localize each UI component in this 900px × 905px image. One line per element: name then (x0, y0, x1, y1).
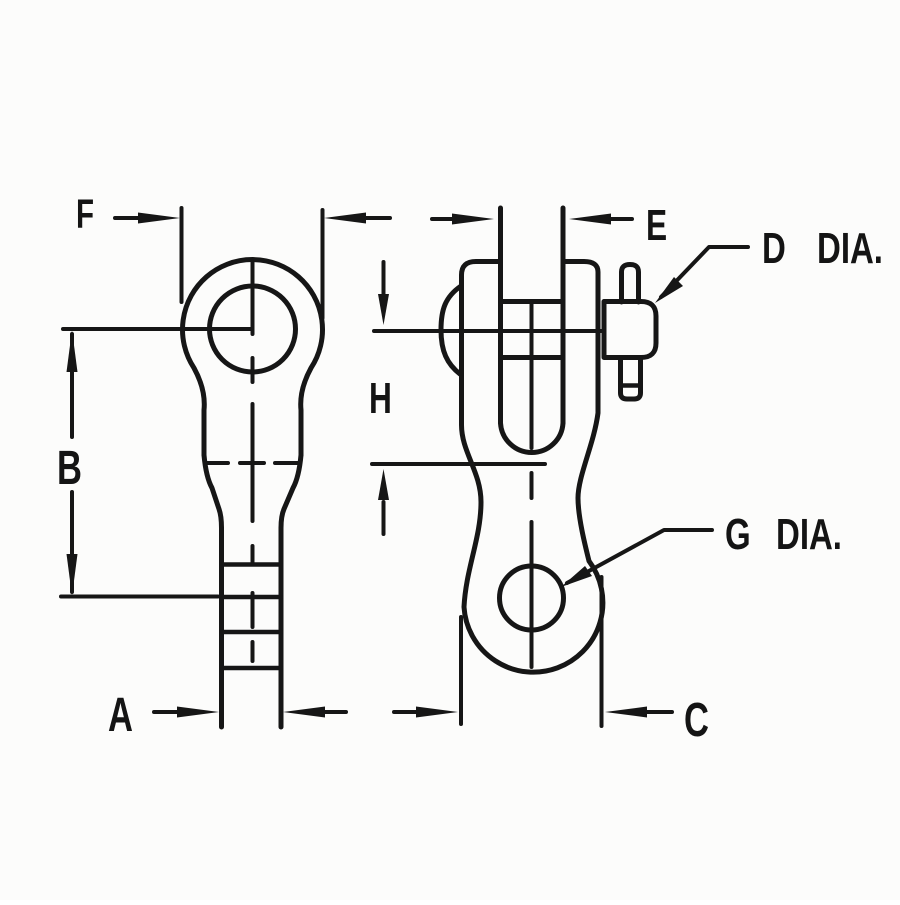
arrow B bottom (67, 554, 78, 596)
taper right (281, 455, 301, 528)
ball end arc (441, 286, 461, 374)
arrow C right (605, 707, 647, 718)
thread line 4 (222, 666, 282, 671)
thread line 3 (222, 630, 282, 635)
pin top edge through slot (501, 299, 564, 304)
slot right line / E extension (561, 208, 566, 423)
D DIA leader (661, 247, 748, 297)
eye outer profile with neck (183, 260, 323, 455)
extension line B bottom (61, 595, 218, 599)
dashed shoulder line (206, 461, 298, 465)
pin head (604, 302, 656, 358)
right view vertical centerline (530, 301, 534, 667)
cotter pin bottom tab bend line (621, 383, 641, 388)
eye vertical centerline (251, 260, 255, 662)
dimension E line right (603, 217, 632, 221)
eye horizontal centerline (63, 327, 253, 331)
stem left edge (219, 528, 224, 727)
cotter pin bottom tab (621, 358, 641, 399)
taper left (204, 455, 222, 528)
extension line F left (180, 208, 184, 302)
arrow C left (416, 707, 458, 718)
svg-text:E: E (646, 201, 667, 250)
H dimension bottom arrow (382, 502, 386, 534)
extension line C left (459, 617, 463, 724)
pin horizontal centerline (374, 329, 601, 333)
thread line 2 (222, 595, 282, 600)
H bottom extension line (372, 462, 545, 466)
dimension F line left (115, 216, 146, 220)
arrow A left (177, 707, 219, 718)
dimension E line left (432, 217, 460, 221)
arrow F left (138, 213, 180, 224)
arrow A right (283, 707, 325, 718)
dimension B line upper (70, 334, 74, 437)
svg-text:G: G (725, 511, 751, 560)
extension line F right (321, 210, 325, 318)
bottom hole G (500, 566, 564, 630)
svg-text:A: A (108, 687, 133, 741)
arrow E right (569, 214, 611, 225)
dimension C line left (394, 710, 416, 714)
cotter pin top tab (622, 265, 639, 303)
clevis outer profile (462, 262, 603, 673)
H dimension top arrow (382, 262, 386, 296)
arrow F right (324, 213, 366, 224)
dimension C line right (647, 710, 672, 714)
thread line 1 (222, 562, 282, 567)
svg-text:DIA.: DIA. (817, 225, 883, 274)
svg-text:DIA.: DIA. (776, 511, 842, 560)
dimension B line lower (70, 492, 74, 592)
svg-text:C: C (684, 692, 709, 746)
arrow B top (67, 330, 78, 372)
svg-text:D: D (762, 225, 786, 274)
pin bottom edge through slot (501, 355, 564, 360)
stem right edge (279, 528, 284, 727)
arrow E left (452, 214, 494, 225)
dimension A line left (154, 710, 177, 714)
eye inner circle (210, 286, 296, 372)
svg-text:B: B (57, 440, 82, 494)
dimension F line right (358, 216, 390, 220)
svg-text:F: F (76, 191, 94, 237)
slot left line / E extension (498, 208, 503, 423)
G DIA leader (567, 530, 712, 583)
slot bottom U (501, 423, 564, 453)
dimension A line right (325, 710, 346, 714)
extension line C right (600, 577, 604, 726)
svg-text:H: H (369, 374, 392, 423)
